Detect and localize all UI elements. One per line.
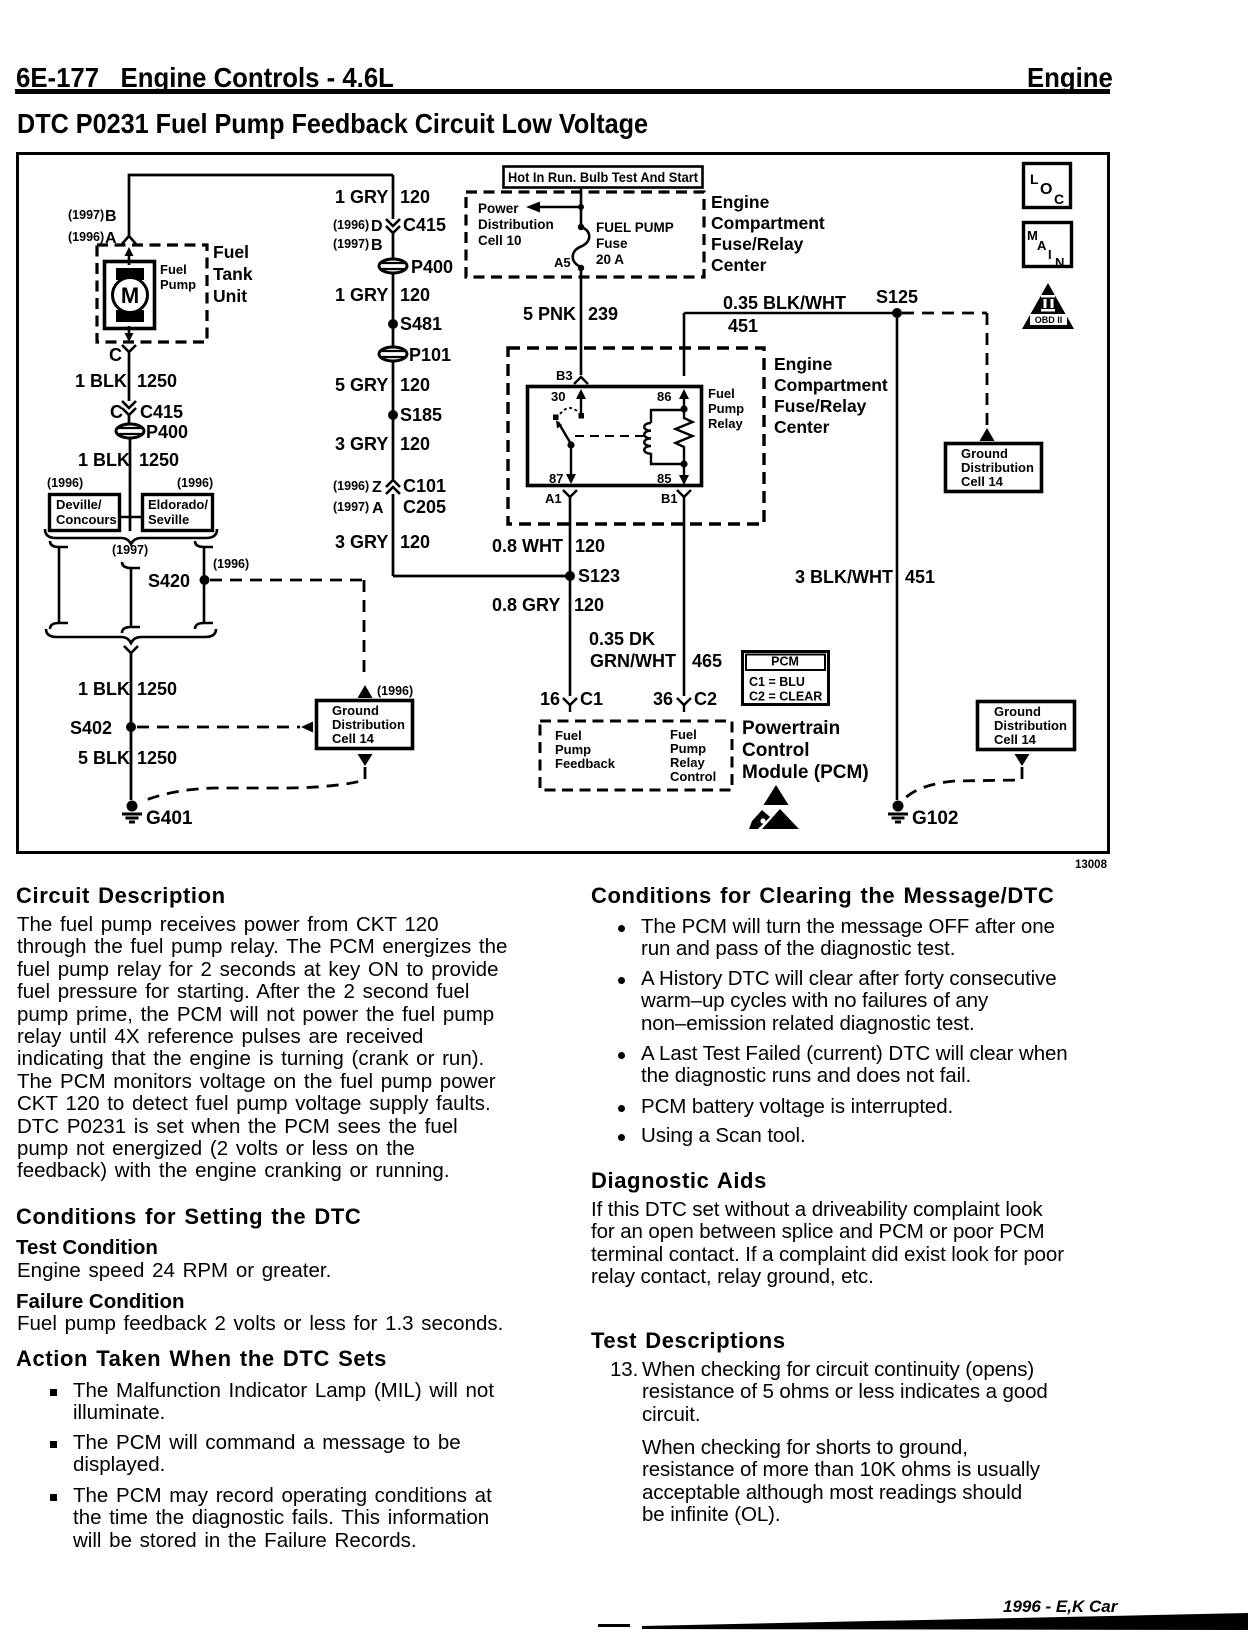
- label: Fuel Pump Feedback input: [555, 728, 616, 771]
- svg-text:Fuse: Fuse: [596, 236, 628, 251]
- svg-text:1 BLK: 1 BLK: [78, 450, 130, 470]
- svg-text:(1996): (1996): [68, 230, 104, 244]
- svg-text:Unit: Unit: [213, 286, 247, 306]
- alternate branch bar (right, 1996 Eldorado) with splice S420: [195, 541, 213, 629]
- svg-text:1 BLK: 1 BLK: [75, 371, 127, 391]
- svg-text:Compartment: Compartment: [774, 375, 888, 395]
- svg-text:120: 120: [400, 285, 430, 305]
- svg-text:Ground: Ground: [994, 704, 1041, 719]
- svg-text:M: M: [121, 283, 139, 308]
- arrow out of Ground Distribution cell to G102: [1015, 754, 1030, 766]
- svg-text:Pump: Pump: [555, 742, 591, 757]
- svg-text:86: 86: [657, 389, 671, 404]
- PCM connector legend block: [743, 652, 829, 705]
- wire: 0.35 DK GRN/WHT 465 relay B1 to PCM C2-36: [683, 497, 686, 696]
- svg-text:C: C: [1054, 191, 1064, 207]
- svg-text:20 A: 20 A: [596, 252, 624, 267]
- svg-text:Center: Center: [774, 417, 830, 437]
- pin 85 arrow: [679, 475, 689, 485]
- arrow out of Ground Distribution cell to G401: [358, 754, 373, 766]
- svg-text:120: 120: [574, 595, 604, 615]
- node label (1996) A: [68, 230, 117, 247]
- svg-text:Distribution: Distribution: [994, 718, 1067, 733]
- svg-text:Ground: Ground: [332, 703, 379, 718]
- svg-text:B: B: [105, 208, 117, 225]
- svg-text:0.35 DK: 0.35 DK: [589, 629, 655, 649]
- feed label box: Hot In Run, Bulb Test And Start: [504, 167, 703, 188]
- splice S402: [126, 722, 136, 732]
- svg-text:Feedback: Feedback: [555, 756, 616, 771]
- svg-text:Relay: Relay: [670, 755, 705, 770]
- svg-text:120: 120: [400, 532, 430, 552]
- wire: 1 BLK 1250 (tank to C415): [128, 352, 131, 401]
- svg-text:S420: S420: [148, 571, 190, 591]
- wire (dashed) S125 to Ground Distribution cell: [902, 313, 987, 427]
- svg-text:Cell 14: Cell 14: [332, 731, 375, 746]
- svg-text:Cell 14: Cell 14: [961, 474, 1004, 489]
- svg-text:C101: C101: [403, 476, 446, 496]
- svg-text:1250: 1250: [137, 679, 177, 699]
- svg-text:1 GRY: 1 GRY: [335, 187, 388, 207]
- wire (dashed) S420 to Ground Distribution cell: [210, 580, 364, 678]
- svg-text:Control: Control: [670, 769, 716, 784]
- resistor (relay suppression): [676, 409, 693, 463]
- pin A1: [563, 490, 577, 497]
- connector C101/C205 pin Z/A: [333, 476, 446, 496]
- connector C415 pin C (left): [122, 401, 136, 415]
- Engine Compartment Fuse/Relay Center dashed box (relay): [508, 348, 764, 524]
- svg-text:C415: C415: [140, 402, 183, 422]
- svg-text:Pump: Pump: [708, 401, 744, 416]
- schematic frame: [18, 154, 1109, 853]
- svg-text:0.35 BLK/WHT: 0.35 BLK/WHT: [723, 293, 846, 313]
- svg-text:(1996): (1996): [377, 684, 413, 698]
- svg-text:(1996): (1996): [333, 218, 369, 232]
- Deville/Concours block: [50, 495, 120, 531]
- svg-text:A: A: [372, 500, 384, 517]
- svg-text:Tank: Tank: [213, 264, 253, 284]
- label: FUEL PUMP Fuse 20 A: [596, 220, 674, 267]
- svg-text:S402: S402: [70, 718, 112, 738]
- svg-text:239: 239: [588, 304, 618, 324]
- svg-text:(1997): (1997): [333, 500, 369, 514]
- wire stubs joining model boxes: [119, 516, 142, 518]
- alternate branch bar (left, 1996 Deville): [50, 541, 68, 629]
- svg-text:120: 120: [400, 375, 430, 395]
- svg-text:C415: C415: [403, 215, 446, 235]
- svg-text:Fuel: Fuel: [160, 262, 187, 277]
- svg-text:Distribution: Distribution: [332, 717, 405, 732]
- Eldorado/Seville block: [143, 495, 213, 531]
- svg-text:S481: S481: [400, 314, 442, 334]
- connector chevron below brace: [124, 646, 138, 653]
- dashed actuation linkage: [575, 435, 645, 437]
- svg-text:S185: S185: [400, 405, 442, 425]
- wire: 5 PNK 239 fuse to relay: [580, 268, 583, 375]
- svg-text:451: 451: [905, 567, 935, 587]
- splice S185: [388, 410, 398, 420]
- svg-text:5 BLK: 5 BLK: [78, 748, 130, 768]
- svg-text:C: C: [110, 402, 123, 422]
- svg-text:Fuse/Relay: Fuse/Relay: [711, 234, 804, 254]
- svg-text:120: 120: [575, 536, 605, 556]
- svg-text:Distribution: Distribution: [961, 460, 1034, 475]
- svg-text:S125: S125: [876, 287, 918, 307]
- svg-text:451: 451: [728, 316, 758, 336]
- pass-through grommet P400 (center): [379, 257, 453, 277]
- fuse FUEL PUMP 20 A: [573, 224, 590, 271]
- svg-text:1250: 1250: [139, 450, 179, 470]
- svg-text:Fuel: Fuel: [555, 728, 582, 743]
- arrow to power distribution cell: [539, 206, 581, 209]
- wire below C415: [128, 415, 131, 423]
- svg-text:C205: C205: [403, 497, 446, 517]
- svg-text:16: 16: [540, 689, 560, 709]
- svg-text:Module (PCM): Module (PCM): [742, 762, 869, 783]
- svg-text:(1997): (1997): [333, 237, 369, 251]
- svg-text:Fuel: Fuel: [670, 727, 697, 742]
- alternate branch bar (center, 1997): [122, 562, 140, 633]
- ESD sensitive symbol: [749, 785, 799, 829]
- OBD II triangle symbol: [1022, 283, 1074, 329]
- svg-text:Powertrain: Powertrain: [742, 718, 840, 739]
- fuel pump motor M1: [105, 247, 155, 342]
- ground G401: [122, 801, 193, 830]
- splice S420: [200, 575, 210, 585]
- splice S123: [565, 571, 575, 581]
- svg-text:Concours: Concours: [56, 512, 117, 527]
- svg-text:Hot In Run. Bulb Test And Star: Hot In Run. Bulb Test And Start: [508, 169, 698, 185]
- splice S481: [388, 319, 398, 329]
- svg-text:0.8 WHT: 0.8 WHT: [492, 536, 563, 556]
- splice S125: [892, 308, 902, 318]
- svg-text:Pump: Pump: [670, 741, 706, 756]
- wire: 1 BLK / 5 BLK 1250 down to G401: [130, 653, 133, 800]
- node label (1997) B: [68, 208, 117, 225]
- wire: 3 GRY 120 run across to splice S123: [393, 575, 570, 578]
- svg-text:Fuel: Fuel: [708, 386, 735, 401]
- fuel tank unit dashed box: [97, 245, 207, 342]
- svg-text:30: 30: [551, 389, 565, 404]
- svg-text:36: 36: [653, 689, 673, 709]
- label: Fuel Pump (inside tank box): [160, 262, 196, 292]
- svg-text:O: O: [1040, 181, 1052, 198]
- svg-text:465: 465: [692, 651, 722, 671]
- svg-text:B1: B1: [661, 491, 678, 506]
- wire from feed into fuse: [580, 187, 583, 226]
- label: Engine Compartment Fuse/Relay Center (relay): [774, 354, 888, 437]
- svg-text:Power: Power: [478, 201, 519, 216]
- svg-text:P400: P400: [411, 257, 453, 277]
- arrow into Ground Distribution cell: [980, 428, 995, 441]
- label: Power Distribution Cell 10: [478, 201, 554, 248]
- svg-text:G102: G102: [912, 808, 958, 829]
- svg-text:P400: P400: [146, 422, 188, 442]
- label: Fuel Tank Unit: [213, 242, 253, 306]
- svg-text:A: A: [1037, 238, 1047, 253]
- svg-text:Seville: Seville: [148, 512, 189, 527]
- wire: 1 BLK 1250 (P400 to model split): [129, 439, 132, 531]
- Power Distribution dashed box (Engine Compartment Fuse/Relay Center): [466, 192, 704, 277]
- wire (dashed) Ground Distribution cell to G401: [146, 767, 365, 800]
- connector C415 pin D/B (center): [333, 215, 446, 235]
- svg-text:Pump: Pump: [160, 277, 196, 292]
- svg-text:120: 120: [400, 434, 430, 454]
- svg-text:1250: 1250: [137, 748, 177, 768]
- svg-text:85: 85: [657, 471, 671, 486]
- svg-text:(1996): (1996): [177, 476, 213, 490]
- svg-text:A5: A5: [554, 255, 571, 270]
- page header: [16, 62, 394, 94]
- svg-text:B3: B3: [556, 368, 573, 383]
- svg-text:Eldorado/: Eldorado/: [148, 497, 208, 512]
- svg-text:G401: G401: [146, 808, 193, 829]
- svg-text:P101: P101: [409, 345, 451, 365]
- svg-text:L: L: [1030, 171, 1039, 187]
- brace gathering model alternatives (bottom): [46, 629, 216, 643]
- svg-text:Distribution: Distribution: [478, 217, 554, 232]
- svg-text:3 GRY: 3 GRY: [335, 532, 388, 552]
- footer: [1003, 1597, 1117, 1617]
- svg-text:3 BLK/WHT: 3 BLK/WHT: [795, 567, 893, 587]
- svg-text:Engine: Engine: [774, 354, 833, 374]
- svg-text:(1997): (1997): [68, 208, 104, 222]
- svg-text:N: N: [1055, 255, 1064, 270]
- Ground Distribution Cell 14 block (upper right): [946, 444, 1042, 492]
- wire (dashed) S402 to Ground Distribution cell: [137, 726, 300, 729]
- connector chevron pin C below tank: [122, 345, 136, 352]
- svg-text:(1996): (1996): [333, 479, 369, 493]
- arrow into Ground Distribution cell (1996): [358, 685, 373, 698]
- svg-text:GRN/WHT: GRN/WHT: [590, 651, 676, 671]
- svg-text:Fuse/Relay: Fuse/Relay: [774, 396, 867, 416]
- svg-text:FUEL PUMP: FUEL PUMP: [596, 220, 674, 235]
- page title: [17, 108, 648, 140]
- svg-text:Cell 10: Cell 10: [478, 233, 522, 248]
- svg-text:B: B: [371, 237, 383, 254]
- wire: 1 GRY 120 vertical (CKT 120 column): [392, 175, 395, 576]
- svg-text:C1 = BLU: C1 = BLU: [749, 675, 805, 689]
- label: Engine Compartment Fuse/Relay Center (top): [711, 192, 825, 275]
- svg-text:1 BLK: 1 BLK: [78, 679, 130, 699]
- dashed throw arc: [560, 408, 578, 414]
- wire: 3 BLK/WHT 451 S125 to G102: [896, 313, 899, 800]
- svg-text:(1996): (1996): [47, 476, 83, 490]
- pin B1: [677, 490, 691, 497]
- wire: 0.8 WHT 120 relay A1 to S123: [569, 497, 572, 576]
- svg-text:Control: Control: [742, 740, 810, 761]
- svg-text:Relay: Relay: [708, 416, 743, 431]
- wire: 0.8 GRY 120 S123 to PCM C1-16: [569, 576, 572, 696]
- wire: 0.35 BLK/WHT 451 from relay to S125: [684, 312, 897, 315]
- svg-text:(1996): (1996): [213, 557, 249, 571]
- PCM dashed box: [540, 721, 732, 790]
- svg-text:0.8 GRY: 0.8 GRY: [492, 595, 560, 615]
- svg-text:120: 120: [400, 187, 430, 207]
- svg-text:C2 = CLEAR: C2 = CLEAR: [749, 690, 822, 704]
- svg-text:C: C: [109, 345, 122, 365]
- svg-text:3 GRY: 3 GRY: [335, 434, 388, 454]
- label: Powertrain Control Module (PCM): [742, 718, 869, 783]
- svg-text:C1: C1: [580, 689, 603, 709]
- connector chevron pin A/B at fuel tank unit: [122, 236, 136, 244]
- right text column: [591, 883, 1054, 909]
- svg-text:D: D: [371, 218, 383, 235]
- svg-text:1250: 1250: [137, 371, 177, 391]
- LOC legend box: [1024, 164, 1071, 208]
- Ground Distribution Cell 14 block (left): [317, 701, 413, 749]
- label: Fuel Pump Relay Control output: [670, 727, 716, 784]
- pass-through grommet P400 (left): [116, 422, 188, 442]
- svg-text:C2: C2: [694, 689, 717, 709]
- svg-text:I: I: [1048, 247, 1052, 262]
- left text column: [16, 883, 226, 909]
- svg-text:Fuel: Fuel: [213, 242, 249, 262]
- svg-text:Ground: Ground: [961, 446, 1008, 461]
- pin 87 arrow: [570, 445, 572, 474]
- Ground Distribution Cell 14 block (lower right): [978, 702, 1075, 750]
- svg-text:Engine: Engine: [711, 192, 770, 212]
- svg-text:5 PNK: 5 PNK: [523, 304, 576, 324]
- pass-through grommet P101: [379, 345, 451, 365]
- svg-text:5 GRY: 5 GRY: [335, 375, 388, 395]
- relay switch lever: [558, 422, 571, 444]
- svg-text:PCM: PCM: [771, 655, 799, 669]
- figure number: [1075, 859, 1107, 871]
- ground G102: [888, 801, 958, 830]
- wire (dashed) Ground Distribution cell to G102: [904, 767, 1022, 799]
- svg-text:Compartment: Compartment: [711, 213, 825, 233]
- MAIN legend box: [1024, 223, 1072, 271]
- svg-text:OBD II: OBD II: [1035, 315, 1063, 325]
- svg-text:S123: S123: [578, 566, 620, 586]
- svg-text:Deville/: Deville/: [56, 497, 102, 512]
- fuel pump relay K1 box: [528, 387, 702, 486]
- svg-text:Cell 14: Cell 14: [994, 732, 1037, 747]
- brace gathering model alternatives (top): [45, 529, 217, 544]
- svg-text:87: 87: [549, 471, 563, 486]
- svg-text:(1997): (1997): [112, 543, 148, 557]
- relay switch contact: [553, 415, 559, 421]
- svg-text:Z: Z: [372, 479, 382, 496]
- svg-text:A1: A1: [545, 491, 562, 506]
- relay coil K1: [644, 410, 684, 464]
- svg-text:Center: Center: [711, 255, 767, 275]
- label: Fuel Pump Relay: [708, 386, 744, 431]
- svg-text:1 GRY: 1 GRY: [335, 285, 388, 305]
- wire: fuel pump feed, top run from fuel tank to CKT 120 column: [129, 175, 393, 236]
